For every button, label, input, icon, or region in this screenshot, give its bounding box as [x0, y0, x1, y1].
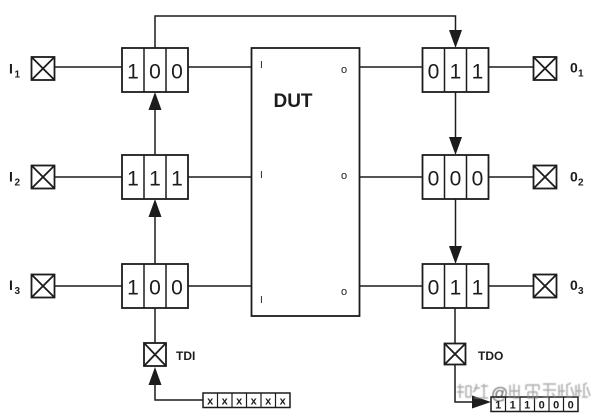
scan chain wire R2 to R3	[455, 199, 457, 247]
svg-text:1: 1	[127, 168, 139, 191]
svg-text:2: 2	[15, 178, 21, 189]
scan chain wire L1 top across to R1	[155, 16, 456, 48]
watermark zhihu	[457, 383, 590, 403]
output pin pad O2	[534, 166, 557, 189]
svg-text:0: 0	[149, 61, 161, 84]
svg-text:TDI: TDI	[176, 349, 195, 363]
wire cell R2 to O2 pad	[489, 176, 534, 178]
svg-text:I: I	[260, 295, 263, 306]
svg-text:x: x	[280, 396, 287, 408]
wire I3 pad to cell	[55, 285, 123, 287]
svg-text:0: 0	[570, 169, 578, 185]
arrow into L1 bottom	[149, 92, 162, 110]
wire R3 to TDO pad	[454, 308, 456, 344]
wire cell L3 to DUT	[188, 285, 252, 287]
output label O1	[570, 60, 584, 80]
wire cell L2 to DUT	[188, 176, 252, 178]
arrow into R1 top	[449, 30, 462, 48]
svg-text:0: 0	[570, 60, 578, 76]
wire cell L1 to DUT	[188, 66, 252, 68]
svg-text:o: o	[341, 286, 347, 298]
svg-text:0: 0	[428, 168, 440, 191]
input pin pad I2	[32, 166, 55, 189]
svg-text:2: 2	[578, 178, 584, 189]
svg-text:0: 0	[428, 277, 440, 300]
svg-text:o: o	[341, 170, 347, 182]
svg-text:1: 1	[127, 277, 139, 300]
svg-text:1: 1	[524, 400, 530, 412]
boundary scan cell L1 value 1 0 0	[122, 48, 188, 92]
svg-text:0: 0	[149, 277, 161, 300]
TDI pin pad	[144, 343, 166, 366]
serial output register 1 1 1 0 0 0	[491, 397, 578, 412]
svg-text:x: x	[207, 396, 214, 408]
boundary scan cell L2 value 1 1 1	[122, 155, 188, 199]
input label I2	[9, 169, 21, 189]
input label I1	[9, 61, 21, 81]
wire I2 pad to cell	[55, 176, 123, 178]
wire DUT to cell R2	[360, 176, 423, 178]
svg-text:@: @	[491, 384, 508, 403]
svg-text:o: o	[341, 64, 347, 76]
svg-text:I: I	[9, 169, 13, 185]
scan chain wire L3 to L2	[154, 217, 156, 264]
svg-text:0: 0	[450, 168, 462, 191]
svg-text:1: 1	[171, 168, 183, 191]
wire I1 pad to cell	[55, 66, 123, 68]
arrow into TDI bottom	[149, 367, 162, 385]
boundary scan cell R1 value 0 1 1	[423, 48, 489, 92]
svg-text:0: 0	[553, 400, 559, 412]
output pin pad O3	[534, 275, 557, 298]
svg-text:1: 1	[15, 70, 21, 81]
wire serial-in register to TDI	[155, 385, 203, 400]
svg-text:1: 1	[450, 277, 462, 300]
boundary scan cell L3 value 1 0 0	[122, 264, 188, 308]
svg-text:I: I	[260, 60, 263, 71]
wire cell R3 to O3 pad	[489, 285, 534, 287]
svg-text:1: 1	[450, 61, 462, 84]
svg-text:DUT: DUT	[273, 91, 312, 112]
svg-text:1: 1	[472, 277, 484, 300]
wire TDO to serial-out register	[455, 365, 472, 403]
svg-text:1: 1	[149, 168, 161, 191]
svg-text:x: x	[251, 396, 258, 408]
output label O3	[570, 277, 584, 297]
input pin pad I3	[32, 275, 55, 298]
svg-text:0: 0	[568, 400, 574, 412]
boundary scan cell R2 value 0 0 0	[423, 155, 489, 199]
DUT block	[252, 48, 360, 316]
wire DUT to cell R1	[360, 66, 423, 68]
svg-text:0: 0	[171, 277, 183, 300]
svg-text:1: 1	[472, 61, 484, 84]
svg-text:3: 3	[15, 286, 21, 297]
svg-text:x: x	[265, 396, 272, 408]
svg-text:0: 0	[570, 277, 578, 293]
svg-text:3: 3	[578, 286, 584, 297]
svg-text:I: I	[9, 277, 13, 293]
serial input shift register x x x x x x	[203, 393, 290, 408]
output pin pad O1	[534, 57, 557, 80]
input pin pad I1	[32, 57, 55, 80]
input label I3	[9, 277, 21, 297]
svg-text:I: I	[9, 61, 13, 77]
wire cell R1 to O1 pad	[489, 66, 534, 68]
arrow into L2 bottom	[149, 199, 162, 217]
svg-text:0: 0	[428, 61, 440, 84]
scan chain wire L2 to L1	[154, 110, 156, 155]
arrow into serial-out register	[472, 396, 491, 409]
wire DUT to cell R3	[360, 285, 423, 287]
svg-text:x: x	[222, 396, 229, 408]
wire TDI pad to L3	[154, 308, 156, 343]
arrow into R3 top	[449, 246, 462, 264]
svg-text:0: 0	[472, 168, 484, 191]
output label O2	[570, 169, 584, 189]
svg-text:0: 0	[539, 400, 545, 412]
svg-text:1: 1	[127, 61, 139, 84]
scan chain wire R1 to R2	[455, 92, 457, 138]
svg-text:TDO: TDO	[478, 349, 503, 363]
svg-text:1: 1	[578, 69, 584, 80]
svg-text:0: 0	[171, 61, 183, 84]
arrow into R2 top	[449, 137, 462, 155]
boundary scan cell R3 value 0 1 1	[423, 264, 489, 308]
TDO pin pad	[445, 344, 466, 365]
svg-text:I: I	[260, 170, 263, 181]
svg-text:1: 1	[510, 400, 516, 412]
svg-text:x: x	[236, 396, 243, 408]
